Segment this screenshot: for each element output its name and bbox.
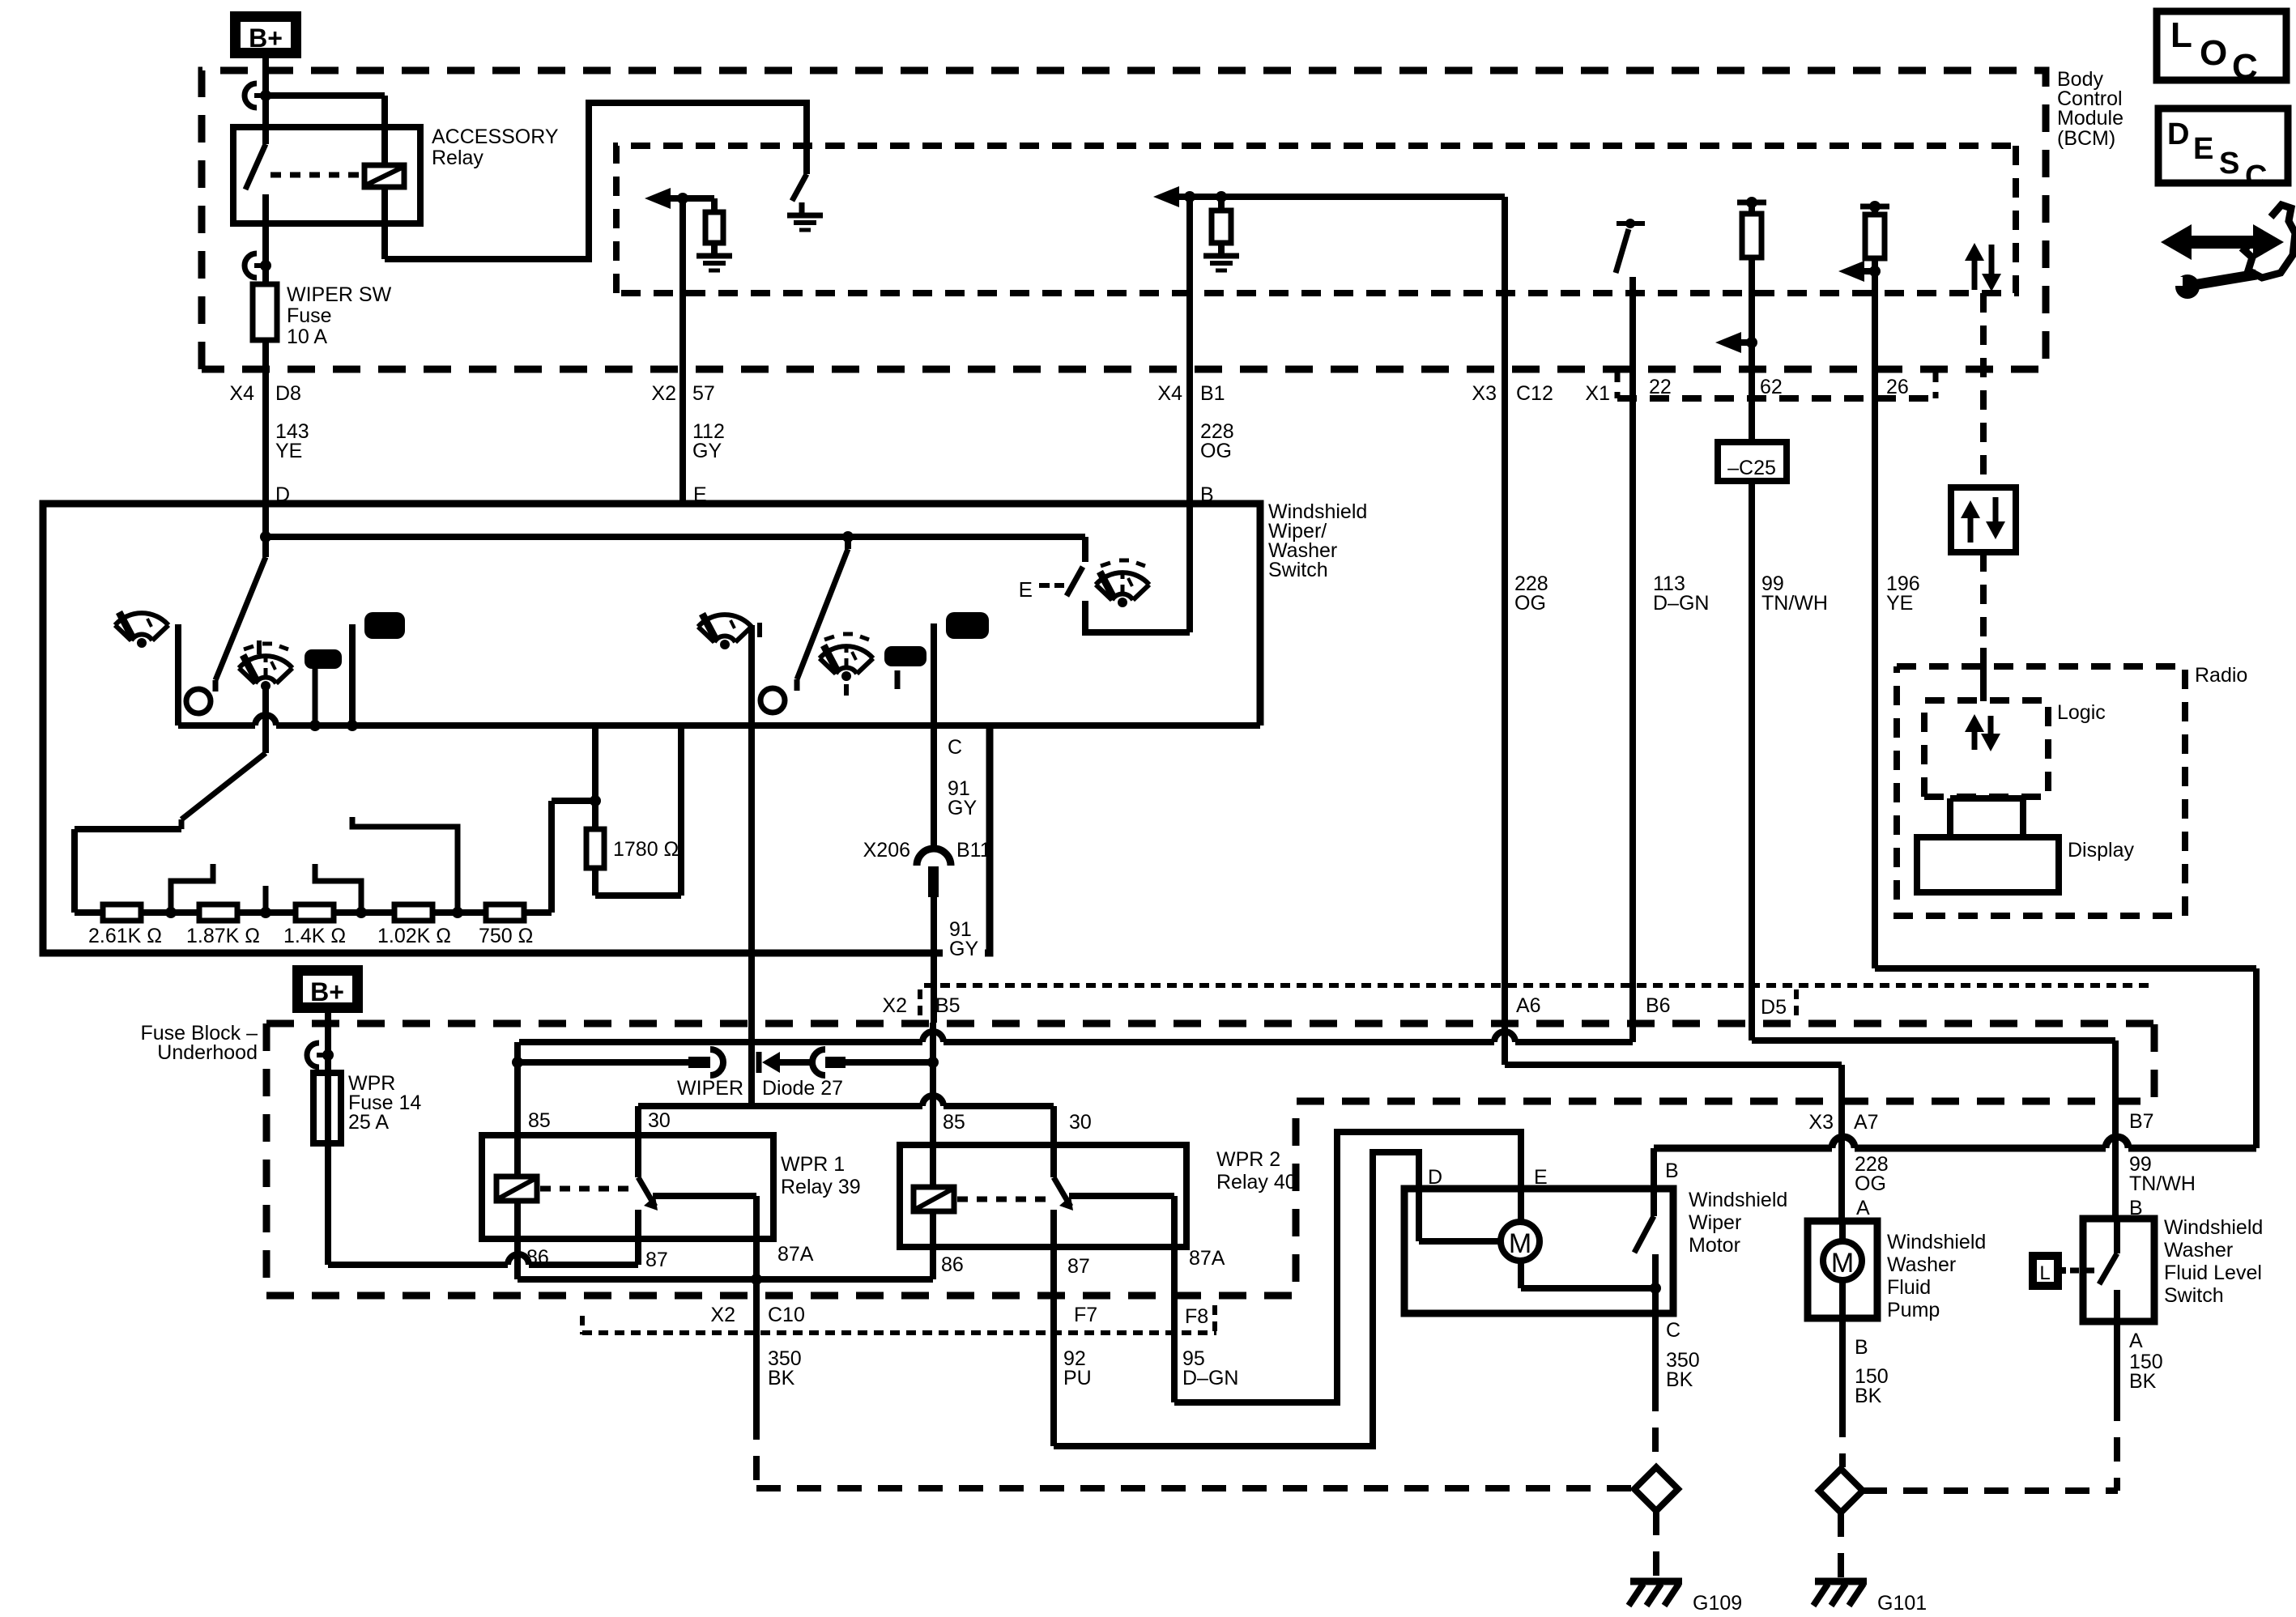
svg-text:BK: BK bbox=[2129, 1370, 2157, 1393]
svg-text:1780 Ω: 1780 Ω bbox=[613, 838, 679, 861]
svg-text:F7: F7 bbox=[1074, 1304, 1097, 1326]
svg-text:X4: X4 bbox=[229, 382, 254, 405]
svg-text:Wiper: Wiper bbox=[1689, 1211, 1741, 1234]
svg-text:X2: X2 bbox=[710, 1304, 735, 1326]
svg-text:Radio: Radio bbox=[2195, 664, 2247, 687]
svg-text:Fluid: Fluid bbox=[1887, 1276, 1931, 1299]
svg-text:87: 87 bbox=[1067, 1255, 1090, 1278]
svg-text:2.61K Ω: 2.61K Ω bbox=[88, 925, 162, 947]
svg-text:85: 85 bbox=[943, 1111, 965, 1134]
svg-text:1.02K Ω: 1.02K Ω bbox=[377, 925, 451, 947]
svg-text:S: S bbox=[2219, 147, 2239, 181]
svg-text:26: 26 bbox=[1886, 376, 1909, 398]
svg-text:C: C bbox=[2232, 47, 2258, 87]
svg-text:1.87K Ω: 1.87K Ω bbox=[186, 925, 260, 947]
svg-text:22: 22 bbox=[1649, 376, 1672, 398]
svg-text:X206: X206 bbox=[863, 839, 910, 862]
svg-text:Windshield: Windshield bbox=[1689, 1189, 1787, 1211]
svg-text:X1: X1 bbox=[1585, 382, 1610, 405]
svg-text:C10: C10 bbox=[768, 1304, 805, 1326]
svg-text:Fuse: Fuse bbox=[287, 304, 332, 327]
svg-text:X3: X3 bbox=[1472, 382, 1497, 405]
svg-text:30: 30 bbox=[648, 1109, 671, 1132]
svg-text:Logic: Logic bbox=[2057, 701, 2106, 724]
svg-text:Windshield: Windshield bbox=[1887, 1231, 1986, 1253]
svg-text:25 A: 25 A bbox=[348, 1111, 389, 1134]
svg-text:A: A bbox=[1856, 1197, 1870, 1219]
svg-text:C: C bbox=[2245, 160, 2267, 194]
svg-text:87: 87 bbox=[645, 1249, 668, 1271]
svg-text:C12: C12 bbox=[1516, 382, 1553, 405]
svg-text:B+: B+ bbox=[249, 23, 283, 53]
svg-text:B11: B11 bbox=[956, 839, 991, 862]
svg-text:D–GN: D–GN bbox=[1182, 1367, 1238, 1389]
svg-text:Relay 39: Relay 39 bbox=[781, 1176, 861, 1198]
svg-text:87A: 87A bbox=[1189, 1247, 1225, 1270]
svg-text:Display: Display bbox=[2068, 839, 2134, 862]
svg-text:Relay 40: Relay 40 bbox=[1216, 1171, 1297, 1194]
svg-text:X4: X4 bbox=[1157, 382, 1182, 405]
svg-text:Module: Module bbox=[2057, 107, 2123, 130]
svg-text:BK: BK bbox=[1855, 1385, 1882, 1407]
svg-text:OG: OG bbox=[1200, 440, 1232, 462]
svg-text:WIPER SW: WIPER SW bbox=[287, 283, 392, 306]
svg-text:OG: OG bbox=[1514, 592, 1546, 615]
svg-text:B6: B6 bbox=[1646, 994, 1671, 1017]
svg-text:L: L bbox=[2170, 15, 2192, 55]
svg-text:F8: F8 bbox=[1185, 1305, 1208, 1328]
svg-text:L: L bbox=[2039, 1262, 2050, 1284]
svg-text:30: 30 bbox=[1069, 1111, 1092, 1134]
svg-text:Pump: Pump bbox=[1887, 1299, 1940, 1321]
svg-text:E: E bbox=[1019, 577, 1033, 602]
svg-text:–C25: –C25 bbox=[1727, 457, 1776, 479]
svg-text:Relay: Relay bbox=[432, 147, 483, 169]
svg-text:C: C bbox=[948, 736, 962, 759]
svg-text:E: E bbox=[1534, 1166, 1548, 1189]
svg-text:57: 57 bbox=[692, 382, 715, 405]
svg-text:O: O bbox=[2200, 33, 2227, 73]
svg-text:BK: BK bbox=[768, 1367, 795, 1389]
svg-text:Windshield: Windshield bbox=[2164, 1216, 2263, 1239]
svg-text:B+: B+ bbox=[310, 977, 344, 1006]
svg-text:B: B bbox=[1855, 1336, 1868, 1359]
svg-text:M: M bbox=[1509, 1228, 1531, 1259]
svg-text:D8: D8 bbox=[275, 382, 301, 405]
svg-text:10 A: 10 A bbox=[287, 326, 327, 348]
svg-text:ACCESSORY: ACCESSORY bbox=[432, 126, 559, 148]
svg-text:X3: X3 bbox=[1808, 1111, 1834, 1134]
svg-text:M: M bbox=[1831, 1248, 1854, 1279]
svg-text:WIPER: WIPER bbox=[677, 1077, 743, 1100]
svg-text:GY: GY bbox=[692, 440, 722, 462]
svg-text:D: D bbox=[1428, 1166, 1442, 1189]
svg-text:A7: A7 bbox=[1854, 1111, 1879, 1134]
svg-text:C: C bbox=[1666, 1319, 1680, 1342]
svg-text:B5: B5 bbox=[935, 994, 961, 1017]
svg-text:BK: BK bbox=[1666, 1368, 1693, 1391]
svg-text:D–GN: D–GN bbox=[1653, 592, 1709, 615]
svg-text:1.4K Ω: 1.4K Ω bbox=[283, 925, 346, 947]
svg-text:B1: B1 bbox=[1200, 382, 1225, 405]
svg-text:A: A bbox=[2129, 1330, 2143, 1352]
svg-text:PU: PU bbox=[1063, 1367, 1092, 1389]
svg-text:GY: GY bbox=[948, 797, 977, 819]
svg-text:YE: YE bbox=[1886, 592, 1913, 615]
svg-text:86: 86 bbox=[941, 1253, 964, 1276]
svg-text:62: 62 bbox=[1760, 376, 1783, 398]
svg-text:X2: X2 bbox=[651, 382, 676, 405]
svg-text:(BCM): (BCM) bbox=[2057, 127, 2115, 150]
svg-text:TN/WH: TN/WH bbox=[1761, 592, 1828, 615]
svg-text:85: 85 bbox=[528, 1109, 551, 1132]
svg-text:OG: OG bbox=[1855, 1172, 1886, 1195]
svg-text:Switch: Switch bbox=[2164, 1284, 2224, 1307]
svg-text:86: 86 bbox=[526, 1246, 549, 1269]
svg-text:Diode 27: Diode 27 bbox=[762, 1077, 843, 1100]
svg-text:X2: X2 bbox=[882, 994, 907, 1017]
svg-text:WPR 2: WPR 2 bbox=[1216, 1148, 1280, 1171]
svg-text:YE: YE bbox=[275, 440, 302, 462]
svg-text:87A: 87A bbox=[777, 1243, 814, 1266]
svg-text:WPR 1: WPR 1 bbox=[781, 1153, 845, 1176]
svg-text:A6: A6 bbox=[1516, 994, 1541, 1017]
svg-text:Switch: Switch bbox=[1268, 559, 1328, 581]
svg-text:B7: B7 bbox=[2129, 1110, 2154, 1133]
svg-text:Washer: Washer bbox=[2164, 1239, 2233, 1262]
svg-text:GY: GY bbox=[949, 938, 978, 960]
svg-text:Fluid Level: Fluid Level bbox=[2164, 1262, 2262, 1284]
svg-text:Motor: Motor bbox=[1689, 1234, 1740, 1257]
svg-text:Underhood: Underhood bbox=[157, 1041, 258, 1064]
svg-text:TN/WH: TN/WH bbox=[2129, 1172, 2196, 1195]
svg-text:D5: D5 bbox=[1761, 996, 1787, 1019]
svg-text:D: D bbox=[2167, 117, 2189, 151]
svg-text:750 Ω: 750 Ω bbox=[479, 925, 533, 947]
svg-text:B: B bbox=[1665, 1160, 1679, 1182]
svg-text:G109: G109 bbox=[1693, 1592, 1742, 1615]
svg-text:G101: G101 bbox=[1877, 1592, 1927, 1615]
svg-text:E: E bbox=[2193, 132, 2213, 166]
svg-text:Washer: Washer bbox=[1887, 1253, 1956, 1276]
